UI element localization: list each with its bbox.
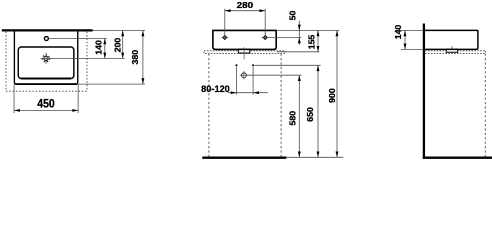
- faucet hole (plan): [44, 37, 48, 41]
- fixing hole left (front): [223, 36, 227, 40]
- dim 140 (side): [404, 30, 406, 49]
- dim 650 (front): [317, 65, 319, 157]
- countertop band dashed (front): [204, 51, 285, 54]
- extension line wall right (plan): [93, 29, 145, 31]
- svg-text:155: 155: [306, 34, 316, 49]
- wall line (side, thick): [423, 24, 425, 159]
- svg-text:450: 450: [37, 99, 55, 111]
- projection dashed left (front): [208, 54, 210, 157]
- dim 50 (front, outside arrows): [298, 21, 300, 45]
- floor line (front, thick): [202, 156, 286, 158]
- svg-text:200: 200: [112, 37, 122, 52]
- dim 280 (front): [224, 9, 226, 36]
- extension rim right (front): [276, 29, 339, 31]
- svg-text:50: 50: [288, 10, 298, 20]
- extension 155 level (front): [277, 51, 320, 53]
- supply dot right (front): [252, 64, 254, 66]
- basin profile (side): [425, 30, 478, 49]
- extension rim left (side): [401, 29, 423, 31]
- basin outer rim (plan): [14, 30, 77, 84]
- countertop dashed (side): [425, 50, 485, 52]
- trap crosshair (front): [242, 73, 247, 78]
- dim 450 (plan): [13, 84, 15, 113]
- bowl inner outline (plan): [18, 47, 74, 79]
- svg-text:650: 650: [305, 107, 315, 122]
- svg-text:80-120: 80-120: [201, 84, 230, 94]
- extension bottom left (side): [401, 48, 423, 50]
- supply dot left (front): [235, 64, 237, 66]
- extension line front edge (plan): [78, 83, 145, 85]
- dim 380 (plan): [142, 30, 144, 84]
- fixing hole right (front): [263, 36, 267, 40]
- extension dots right (front): [255, 64, 321, 66]
- svg-text:140: 140: [94, 40, 104, 55]
- countertop outline dashed (plan): [5, 32, 7, 91]
- drain stub (front): [238, 49, 249, 53]
- svg-text:140: 140: [393, 24, 403, 39]
- drain symbol (plan): [44, 56, 48, 60]
- svg-text:580: 580: [288, 110, 298, 125]
- extension holes right (front): [269, 37, 302, 39]
- svg-text:380: 380: [130, 49, 140, 64]
- projection dashed right (side): [484, 54, 486, 157]
- drain centerline (front): [243, 47, 245, 59]
- dim 140 (plan): [104, 39, 106, 59]
- bowl front edge emphasis (plan): [21, 78, 71, 80]
- drain tab (side): [446, 49, 458, 52]
- dim 155 (front): [317, 30, 319, 51]
- floor line (side, thick): [423, 156, 492, 158]
- dim 200 (plan): [122, 30, 124, 58]
- wall line (plan, thick): [2, 29, 93, 31]
- drain centerline (side): [451, 46, 453, 54]
- extension line drain (plan): [50, 57, 125, 59]
- svg-text:900: 900: [327, 88, 337, 103]
- svg-text:280: 280: [237, 1, 254, 10]
- dim 900 (front): [336, 30, 338, 157]
- basin front edge emphasis (plan): [15, 83, 76, 85]
- dim 580 (front): [298, 75, 300, 157]
- floor extension thin (front): [286, 156, 343, 158]
- basin body (front): [213, 30, 276, 49]
- extension trap right (front): [246, 74, 301, 76]
- extension line faucet (plan): [49, 38, 107, 40]
- dim 80-120 (front): [236, 67, 238, 95]
- projection dashed right (front): [280, 54, 282, 157]
